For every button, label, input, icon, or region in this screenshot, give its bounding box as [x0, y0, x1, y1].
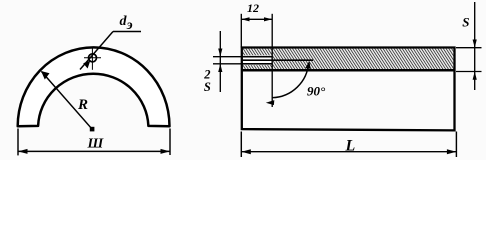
svg-text:12: 12	[247, 1, 259, 15]
svg-text:L: L	[345, 137, 356, 154]
svg-text:R: R	[77, 97, 88, 113]
svg-text:90°: 90°	[307, 83, 326, 98]
svg-text:S: S	[204, 80, 211, 94]
svg-text:S: S	[462, 14, 469, 29]
svg-text:Ш: Ш	[87, 136, 105, 151]
svg-text:э: э	[126, 18, 133, 33]
